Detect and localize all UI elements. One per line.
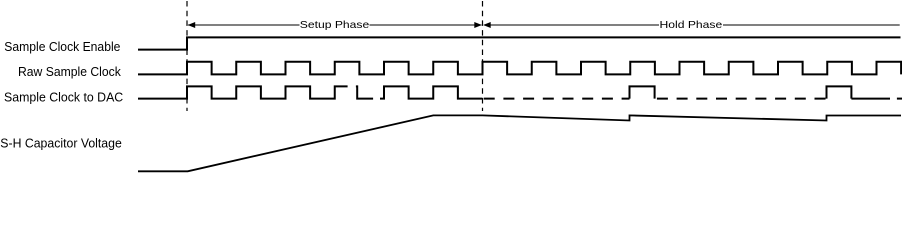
wire: S-H capacitor voltage waveform — [138, 115, 901, 171]
wire: sample clock to DAC setup-phase pulses — [138, 86, 348, 98]
dashed boundary line (hold start) — [482, 1, 484, 111]
wire: DAC clock hold refresh pulse 2 — [827, 86, 852, 98]
node: setup phase right arrowhead — [474, 22, 482, 28]
wire: hold phase arrow line right segment — [723, 24, 900, 26]
wire: DAC clock dashed low line (hold phase, segment 2) — [657, 98, 827, 100]
wire: DAC clock low tail after pulse 2 — [851, 98, 890, 100]
wire: DAC clock dashed low line (hold phase, segment 1) — [484, 98, 630, 100]
wire: setup phase arrow line right segment — [370, 24, 482, 26]
wire: raw sample clock waveform — [138, 62, 901, 75]
svg-text:Raw Sample Clock: Raw Sample Clock — [18, 65, 121, 79]
wire: DAC clock break stub (falling) — [356, 86, 373, 98]
node: hold phase left arrowhead — [483, 22, 491, 28]
svg-text:Hold Phase: Hold Phase — [660, 20, 723, 31]
wire: sample clock enable waveform — [138, 37, 901, 49]
node: setup phase left arrowhead — [188, 22, 196, 28]
wire: DAC clock hold refresh pulse 1 — [630, 86, 655, 98]
svg-text:S-H Capacitor Voltage: S-H Capacitor Voltage — [0, 136, 122, 150]
svg-text:Setup Phase: Setup Phase — [300, 20, 370, 31]
svg-text:Sample Clock Enable: Sample Clock Enable — [4, 40, 120, 54]
svg-text:Sample Clock to DAC: Sample Clock to DAC — [4, 91, 123, 105]
wire: hold phase arrow line left segment — [484, 24, 659, 26]
wire: DAC clock resumed pulses to hold boundary — [380, 86, 483, 98]
wire: DAC clock final dash at right edge — [897, 98, 902, 100]
wire: setup phase arrow line left segment — [188, 24, 300, 26]
dashed boundary line (setup start) — [186, 1, 188, 111]
